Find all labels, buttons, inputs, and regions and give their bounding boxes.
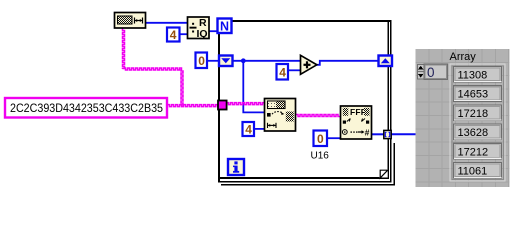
svg-text:4: 4 xyxy=(170,28,177,42)
front panel background xyxy=(416,49,510,187)
array element 17212 xyxy=(454,143,502,159)
svg-text:N: N xyxy=(220,20,229,34)
wire: const 0 to left shift register xyxy=(207,60,219,62)
iteration terminal i xyxy=(228,159,244,175)
string tunnel on loop border xyxy=(218,101,227,110)
svg-text:13628: 13628 xyxy=(458,127,489,139)
string wire: up to string length xyxy=(123,29,125,70)
numeric constant 4 (subset length) xyxy=(243,122,255,137)
wire: left shift register to add xyxy=(233,60,301,62)
string wire: constant to tunnel xyxy=(168,105,219,107)
svg-text:11061: 11061 xyxy=(458,166,488,178)
svg-text:0: 0 xyxy=(198,54,205,68)
string wire: branch vertical up xyxy=(181,69,183,106)
numeric constant 0 (shift register init) xyxy=(196,53,208,69)
wire: string length to quotient xyxy=(146,22,187,24)
svg-text:0: 0 xyxy=(427,65,435,80)
string constant 2C2C393D4342353C433C2B35 xyxy=(5,98,167,118)
svg-text:17212: 17212 xyxy=(458,146,489,158)
svg-text:11308: 11308 xyxy=(458,70,488,82)
add node xyxy=(301,55,317,74)
numeric constant 4 (add input) xyxy=(277,64,289,80)
front panel grid xyxy=(416,49,510,187)
svg-text:4: 4 xyxy=(279,65,286,79)
hex string to number node xyxy=(341,106,372,139)
For Loop border xyxy=(218,20,395,186)
svg-text:14653: 14653 xyxy=(458,89,489,101)
wire: add output to right shift register xyxy=(317,61,379,65)
loop count terminal N xyxy=(218,19,232,34)
left shift register (down arrow) xyxy=(219,56,233,67)
wire: branch down to string subset offset xyxy=(243,61,264,113)
string wire: branch horizontal xyxy=(124,68,183,70)
array element frame xyxy=(450,64,505,181)
wire: const 4 to string subset length xyxy=(254,128,265,130)
string wire: string subset to hex-to-number xyxy=(296,115,340,117)
array index control xyxy=(418,64,448,80)
loop shadow page lines xyxy=(394,143,396,186)
array element 14653 xyxy=(454,86,502,102)
wire: const 4 to add xyxy=(288,69,301,71)
array element 11061 xyxy=(454,163,502,179)
array element 11308 xyxy=(454,67,502,83)
wire: const 0 U16 to hex-to-number xyxy=(328,137,342,139)
wire junction dot xyxy=(241,58,246,63)
wire: tunnel to array indicator xyxy=(390,133,416,135)
numeric constant 0 with U16 representation xyxy=(311,131,330,162)
svg-text:17218: 17218 xyxy=(458,108,489,120)
svg-text:Array: Array xyxy=(450,51,477,63)
string length node xyxy=(115,13,146,29)
array element 17218 xyxy=(454,105,502,121)
svg-text:IQ: IQ xyxy=(197,28,208,40)
quotient &amp; remainder node U-QR xyxy=(188,17,210,40)
string wire: tunnel to string subset xyxy=(227,103,265,105)
svg-text:4: 4 xyxy=(245,123,252,137)
svg-text:#: # xyxy=(365,127,370,137)
svg-text:FFF: FFF xyxy=(350,107,366,117)
wire: hex-to-number to indexing tunnel xyxy=(372,133,385,135)
indexing tunnel [] xyxy=(384,130,391,138)
wire: quotient to N xyxy=(209,30,218,32)
loop folded corner xyxy=(379,169,387,178)
svg-text:2C2C393D4342353C433C2B35: 2C2C393D4342353C433C2B35 xyxy=(10,103,163,115)
numeric constant 4 (quotient input) xyxy=(167,28,180,43)
svg-text:U16: U16 xyxy=(311,151,330,162)
svg-text:0: 0 xyxy=(317,132,324,146)
right shift register (up arrow) xyxy=(379,56,393,67)
string subset node xyxy=(265,99,296,132)
wire: const 4 to quotient xyxy=(180,33,188,35)
array element 13628 xyxy=(454,124,502,140)
